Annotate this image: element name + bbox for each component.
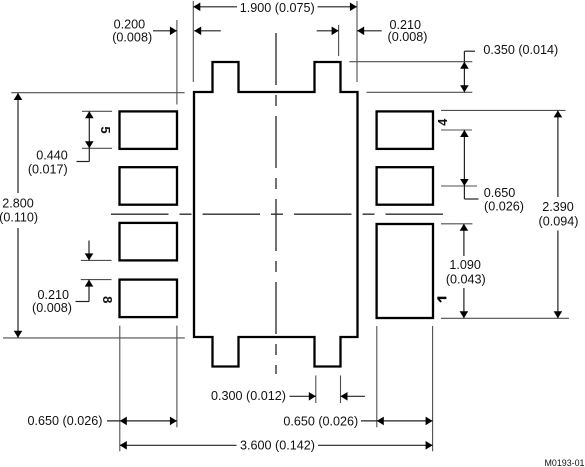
svg-text:(0.110): (0.110)	[0, 210, 38, 224]
svg-text:(0.008): (0.008)	[112, 31, 152, 45]
extension line bottom tab left	[315, 376, 317, 404]
svg-text:8: 8	[100, 296, 115, 303]
horizontal center line	[111, 213, 453, 215]
extension line pad7 bottom	[81, 259, 112, 261]
pad 8	[120, 280, 178, 318]
dimension 0.650 right	[463, 130, 465, 199]
pad 7	[120, 223, 178, 261]
svg-text:4: 4	[435, 118, 450, 126]
dimension 0.350	[463, 62, 465, 93]
pad 5	[120, 111, 178, 148]
svg-text:0.650: 0.650	[484, 186, 516, 200]
pin number 1	[437, 298, 446, 302]
svg-text:0.440: 0.440	[36, 149, 68, 163]
svg-text:0.200: 0.200	[114, 18, 146, 32]
svg-text:(0.008): (0.008)	[32, 301, 72, 315]
extension line tab top right	[349, 61, 472, 63]
extension line pads left edge bottom	[119, 326, 121, 452]
extension line package right edge top	[356, 1, 358, 82]
extension line pad1 top	[441, 223, 472, 225]
extension line pad5 bottom	[82, 147, 112, 149]
pad 1 (large)	[377, 224, 433, 318]
pad 6	[120, 167, 178, 205]
extension line pad4 top	[441, 109, 566, 111]
extension line pads right edge bottom	[176, 326, 178, 428]
svg-text:0.650 (0.026): 0.650 (0.026)	[28, 414, 103, 428]
svg-text:(0.026): (0.026)	[484, 199, 524, 213]
extension line package top left	[11, 92, 184, 94]
svg-text:0.300 (0.012): 0.300 (0.012)	[211, 389, 286, 403]
svg-text:1.900 (0.075): 1.900 (0.075)	[240, 1, 315, 15]
dimension 2.800	[17, 93, 19, 193]
dimension 0.210 arrows top right	[317, 30, 339, 32]
extension line pad5 top	[82, 110, 112, 112]
svg-text:M0193-01: M0193-01	[545, 458, 585, 467]
dimension 1.090	[463, 224, 465, 256]
extension line pad1 left edge bottom	[376, 326, 378, 427]
extension line bottom tab right	[340, 376, 342, 404]
svg-text:2.390: 2.390	[542, 200, 574, 214]
extension line package bottom left	[3, 337, 185, 339]
dimension 0.300 arrows	[290, 395, 316, 397]
dimension 0.200 arrows	[153, 30, 177, 32]
pad 3	[377, 167, 433, 205]
extension line pad right edge top	[176, 20, 178, 105]
svg-text:3.600 (0.142): 3.600 (0.142)	[240, 439, 315, 453]
extension line pad1 right edge bottom	[432, 326, 434, 451]
svg-text:1.090: 1.090	[449, 258, 481, 272]
extension line package top right	[367, 91, 473, 93]
dimension 2.390	[557, 110, 559, 197]
svg-text:0.650 (0.026): 0.650 (0.026)	[283, 415, 358, 429]
extension line pad1 bottom	[441, 317, 569, 319]
svg-text:5: 5	[98, 126, 113, 133]
svg-text:0.350 (0.014): 0.350 (0.014)	[483, 43, 558, 57]
extension line pad3 center	[441, 185, 477, 187]
extension line pad4 center	[441, 129, 472, 131]
svg-text:(0.043): (0.043)	[446, 272, 486, 286]
dimension 1.900 line	[193, 6, 237, 8]
svg-text:2.800: 2.800	[2, 197, 34, 211]
extension line pad8 top	[81, 279, 112, 281]
svg-text:(0.008): (0.008)	[388, 30, 428, 44]
dimension 0.440	[88, 111, 90, 161]
vertical center line	[275, 33, 277, 374]
dimension 3.600	[120, 444, 237, 446]
package body outline	[194, 62, 358, 367]
svg-text:(0.017): (0.017)	[28, 163, 68, 177]
pad 4	[377, 111, 433, 148]
extension line tab right edge top	[338, 25, 340, 56]
dimension 0.210 left	[88, 241, 90, 261]
dimension 0.650 bottom right	[361, 420, 433, 422]
dimension 0.650 bottom left	[107, 420, 177, 422]
svg-text:(0.094): (0.094)	[539, 215, 579, 229]
extension line package left edge top	[192, 1, 194, 82]
svg-text:0.210: 0.210	[38, 288, 70, 302]
